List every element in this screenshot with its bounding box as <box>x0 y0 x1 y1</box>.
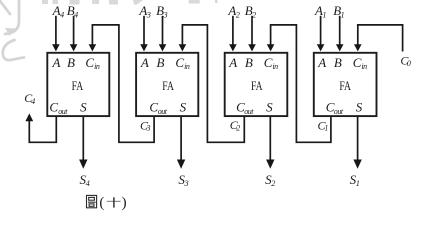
svg-text:B3: B3 <box>156 3 168 19</box>
svg-text:A3: A3 <box>138 3 151 19</box>
svg-text:S1: S1 <box>350 172 360 188</box>
svg-text:FA: FA <box>251 78 263 93</box>
svg-text:S: S <box>80 100 87 115</box>
svg-text:FA: FA <box>72 78 84 93</box>
svg-text:C0: C0 <box>400 53 411 67</box>
svg-text:B: B <box>245 55 253 70</box>
svg-text:A: A <box>228 55 237 70</box>
svg-text:Cin: Cin <box>353 55 367 71</box>
svg-text:(: ( <box>99 195 104 211</box>
svg-text:S: S <box>266 100 273 115</box>
svg-text:S4: S4 <box>80 172 90 188</box>
svg-text:Cin: Cin <box>85 55 99 71</box>
svg-text:C2: C2 <box>230 118 241 132</box>
svg-text:A: A <box>140 55 149 70</box>
svg-text:FA: FA <box>162 78 174 93</box>
svg-text:S: S <box>180 100 187 115</box>
svg-text:out: out <box>58 107 68 116</box>
svg-text:FA: FA <box>339 78 351 93</box>
svg-text:B4: B4 <box>67 3 79 19</box>
svg-text:S3: S3 <box>178 172 188 188</box>
svg-text:Cin: Cin <box>175 55 189 71</box>
svg-text:C1: C1 <box>318 118 329 132</box>
svg-text:A: A <box>317 55 326 70</box>
svg-text:Cin: Cin <box>264 55 278 71</box>
svg-text:C3: C3 <box>140 118 151 132</box>
svg-text:B: B <box>334 55 342 70</box>
svg-text:A: A <box>52 55 61 70</box>
svg-text:B: B <box>67 55 75 70</box>
svg-text:out: out <box>158 107 168 116</box>
svg-text:B2: B2 <box>245 3 257 19</box>
svg-text:C: C <box>49 100 58 115</box>
svg-text:S: S <box>356 100 363 115</box>
svg-text:S2: S2 <box>265 172 275 188</box>
svg-text:out: out <box>244 107 254 116</box>
svg-text:A1: A1 <box>314 3 327 19</box>
svg-text:B1: B1 <box>333 3 345 19</box>
svg-text:A2: A2 <box>227 3 240 19</box>
svg-text:A4: A4 <box>52 3 65 19</box>
svg-text:B: B <box>157 55 165 70</box>
svg-text:C4: C4 <box>24 91 36 106</box>
svg-text:): ) <box>122 195 127 211</box>
svg-text:out: out <box>334 107 344 116</box>
